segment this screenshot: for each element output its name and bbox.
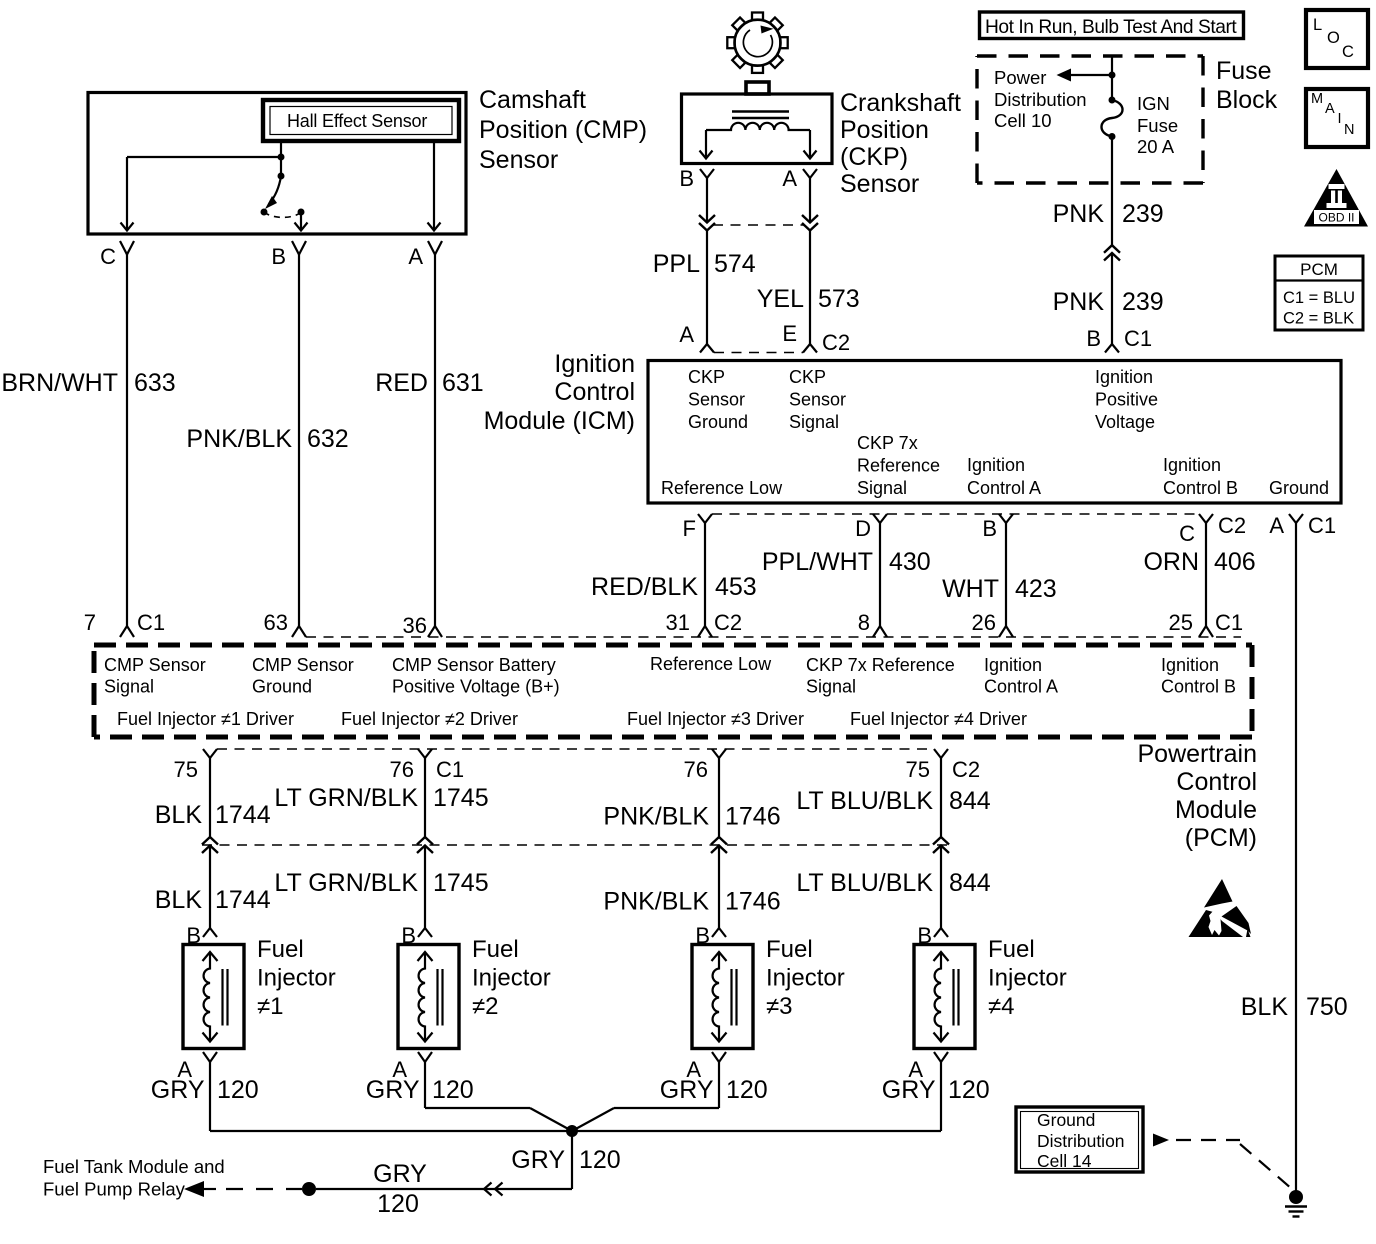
pin 8 [873, 626, 887, 637]
fuel injector 1 box [183, 945, 244, 1049]
svg-text:GRY: GRY [660, 1076, 714, 1104]
svg-text:ORN: ORN [1143, 548, 1199, 576]
wire from Hall sensor to junction [280, 141, 282, 176]
svg-text:O: O [1327, 29, 1340, 47]
svg-text:Injector: Injector [988, 965, 1067, 992]
svg-text:YEL: YEL [757, 285, 804, 313]
svg-text:PNK/BLK: PNK/BLK [186, 425, 292, 453]
injector 4 pin A [934, 1052, 948, 1062]
svg-text:633: 633 [134, 369, 176, 397]
svg-text:GRY: GRY [151, 1076, 205, 1104]
svg-text:LT GRN/BLK: LT GRN/BLK [274, 784, 418, 812]
svg-text:B: B [1086, 326, 1101, 351]
svg-text:PNK/BLK: PNK/BLK [603, 888, 709, 916]
svg-text:(PCM): (PCM) [1185, 824, 1257, 852]
junction dot to Power Distribution [1109, 72, 1116, 79]
svg-text:Sensor: Sensor [789, 390, 846, 410]
svg-text:423: 423 [1015, 575, 1057, 603]
svg-text:GRY: GRY [882, 1076, 936, 1104]
svg-text:Sensor: Sensor [688, 390, 745, 410]
svg-text:C1: C1 [137, 610, 165, 635]
svg-text:63: 63 [264, 610, 288, 635]
inline connector on PPL wire [699, 215, 715, 223]
wire BLK 1744 upper segment [209, 758, 211, 837]
hall switch arm with arrowhead [269, 176, 281, 204]
wire PPL/WHT 430 (ICM D to PCM 8) [879, 523, 881, 626]
svg-text:C: C [1342, 43, 1354, 61]
svg-text:Module: Module [1175, 796, 1257, 824]
connector dashed line between PPL and YEL wires [713, 224, 804, 226]
junction dot upper [278, 154, 285, 161]
dashed wire to fuel pump relay [226, 1188, 302, 1190]
injector 2 coil symbol [419, 953, 425, 1042]
svg-text:GRY: GRY [511, 1146, 565, 1174]
svg-text:Control B: Control B [1161, 677, 1236, 697]
svg-text:20 A: 20 A [1137, 136, 1175, 157]
svg-text:574: 574 [714, 250, 756, 278]
splice dot [302, 1182, 316, 1196]
svg-text:≠4: ≠4 [988, 993, 1015, 1020]
svg-text:Crankshaft: Crankshaft [840, 89, 961, 117]
inline connector on YEL wire [802, 215, 818, 223]
injector 1 pin B [203, 928, 217, 937]
injector 2 pin B [418, 928, 432, 937]
svg-text:Position (CMP): Position (CMP) [479, 116, 647, 144]
svg-text:C1: C1 [1215, 610, 1243, 635]
wire YEL 573 (CKP A to ICM E) [809, 178, 811, 223]
svg-text:BLK: BLK [155, 801, 203, 829]
svg-text:1745: 1745 [433, 869, 489, 897]
PCM bottom connector dashed line [217, 748, 934, 750]
svg-text:8: 8 [858, 610, 870, 635]
svg-text:C: C [1179, 521, 1195, 546]
svg-text:CMP Sensor: CMP Sensor [252, 655, 354, 675]
svg-text:Reference Low: Reference Low [650, 654, 772, 674]
svg-text:120: 120 [217, 1076, 259, 1104]
svg-text:Ground: Ground [688, 412, 748, 432]
svg-text:PPL/WHT: PPL/WHT [762, 548, 873, 576]
svg-text:406: 406 [1214, 548, 1256, 576]
injector 3 coil symbol [713, 953, 719, 1042]
svg-text:E: E [782, 321, 797, 346]
MAIN box [1306, 89, 1368, 147]
svg-text:Fuel Injector ≠1 Driver: Fuel Injector ≠1 Driver [117, 709, 294, 729]
wire PNK/BLK 1746 upper segment [718, 758, 720, 837]
svg-text:PNK: PNK [1053, 288, 1105, 316]
wire inside box to pin A [433, 141, 435, 229]
IGN fuse 20A element [1109, 97, 1116, 104]
svg-text:120: 120 [579, 1146, 621, 1174]
svg-text:Camshaft: Camshaft [479, 86, 586, 114]
injector 2 pin A [418, 1052, 432, 1062]
svg-text:Fuel: Fuel [988, 936, 1035, 963]
svg-text:RED: RED [375, 369, 428, 397]
svg-text:Positive: Positive [1095, 390, 1158, 410]
svg-text:CMP Sensor Battery: CMP Sensor Battery [392, 655, 556, 675]
wire ORN 406 (ICM C to PCM 25) [1205, 523, 1207, 626]
arrow to Power Distribution Cell 10 [1068, 74, 1112, 76]
ground symbol G103 [1289, 1190, 1303, 1204]
svg-text:239: 239 [1122, 288, 1164, 316]
svg-text:CKP: CKP [688, 367, 725, 387]
wire WHT 423 (ICM B to PCM 26) [1005, 523, 1007, 626]
svg-text:844: 844 [949, 787, 991, 815]
svg-text:120: 120 [377, 1190, 419, 1218]
Ground Distribution Cell 14 box [1016, 1107, 1143, 1172]
svg-text:BRN/WHT: BRN/WHT [1, 369, 118, 397]
svg-text:Hall Effect Sensor: Hall Effect Sensor [287, 111, 427, 131]
svg-text:1746: 1746 [725, 803, 781, 831]
LOC box [1306, 10, 1368, 68]
injector 4 pin B [934, 928, 948, 937]
wire BLK 750 (ICM A to ground) [1295, 523, 1297, 1191]
svg-text:BLK: BLK [155, 886, 203, 914]
svg-text:120: 120 [432, 1076, 474, 1104]
pin 31 C2 [698, 626, 712, 637]
svg-text:A: A [1325, 101, 1335, 117]
dashed link to ground point [1176, 1139, 1240, 1141]
svg-text:C2: C2 [822, 330, 850, 355]
pin A (ground) at ICM bottom [1289, 514, 1303, 523]
svg-text:239: 239 [1122, 200, 1164, 228]
wire PNK 239 from fuse to ICM [1111, 137, 1113, 246]
svg-text:75: 75 [906, 757, 930, 782]
svg-text:≠1: ≠1 [257, 993, 284, 1020]
svg-text:PNK: PNK [1053, 200, 1105, 228]
PCM top connector dashed line [306, 636, 1241, 638]
svg-text:I: I [1338, 111, 1342, 127]
svg-text:CKP 7x Reference: CKP 7x Reference [806, 655, 955, 675]
svg-text:C2: C2 [714, 610, 742, 635]
svg-text:L: L [1313, 16, 1322, 34]
svg-text:Injector: Injector [766, 965, 845, 992]
svg-text:C1 = BLU: C1 = BLU [1283, 289, 1355, 307]
wire RED 631 (pin A to PCM 36) [434, 254, 436, 626]
inline connector chevrons [484, 1183, 492, 1196]
svg-text:Control: Control [1176, 768, 1257, 796]
injector 3 pin B [712, 928, 726, 937]
pin 76 C2 (injector 3 driver) [712, 749, 726, 758]
Hall Effect Sensor box [263, 100, 459, 141]
svg-text:A: A [408, 244, 423, 269]
pin 75 C1 (injector 1 driver) [203, 749, 217, 758]
pin 26 [999, 626, 1013, 637]
svg-text:≠2: ≠2 [472, 993, 499, 1020]
injector 1 pin A [203, 1052, 217, 1062]
svg-text:Fuel: Fuel [766, 936, 813, 963]
pin A at ICM top [700, 344, 714, 353]
svg-text:632: 632 [307, 425, 349, 453]
svg-text:LT BLU/BLK: LT BLU/BLK [796, 869, 933, 897]
pin C at ICM bottom [1199, 514, 1213, 523]
OBD II symbol [1304, 169, 1368, 227]
svg-text:Fuse: Fuse [1216, 57, 1272, 85]
PCM dashed box outline [94, 643, 1252, 648]
svg-text:Fuel Tank Module and: Fuel Tank Module and [43, 1156, 225, 1177]
svg-text:Fuse: Fuse [1137, 115, 1178, 136]
svg-text:Distribution: Distribution [994, 89, 1087, 110]
svg-text:Control A: Control A [984, 677, 1058, 697]
fuel injector 3 box [692, 945, 753, 1049]
svg-text:GRY: GRY [366, 1076, 420, 1104]
svg-text:Signal: Signal [806, 677, 856, 697]
svg-text:LT BLU/BLK: LT BLU/BLK [796, 787, 933, 815]
pole piece lines [732, 110, 789, 112]
ground bus horizontal wire [210, 1130, 941, 1132]
PCM connector legend box [1275, 256, 1363, 330]
pin A of CMP connector [428, 241, 442, 255]
arrow into pin C [121, 223, 134, 231]
inline connector on BLK wire [202, 837, 218, 845]
pin 75 C2 (injector 4 driver) [934, 749, 948, 758]
svg-text:≠3: ≠3 [766, 993, 793, 1020]
svg-text:CKP: CKP [789, 367, 826, 387]
pin E at ICM top [803, 344, 817, 353]
svg-text:Fuel Pump Relay: Fuel Pump Relay [43, 1179, 186, 1200]
wire PPL 574 (CKP B to ICM A) [706, 178, 708, 223]
svg-text:1745: 1745 [433, 784, 489, 812]
svg-text:Signal: Signal [857, 478, 907, 498]
svg-text:Fuel Injector ≠2 Driver: Fuel Injector ≠2 Driver [341, 709, 518, 729]
svg-text:Ground: Ground [1037, 1110, 1095, 1130]
wire BRN/WHT 633 (pin C to PCM 7) [126, 254, 128, 626]
svg-text:Fuel Injector ≠4 Driver: Fuel Injector ≠4 Driver [850, 709, 1027, 729]
svg-text:Ignition: Ignition [1161, 655, 1219, 675]
svg-text:Signal: Signal [789, 412, 839, 432]
svg-text:Control A: Control A [967, 478, 1041, 498]
svg-text:C2 = BLK: C2 = BLK [1283, 310, 1354, 328]
CKP sensor box [682, 94, 833, 164]
svg-text:1746: 1746 [725, 888, 781, 916]
svg-text:Reference: Reference [857, 456, 940, 476]
svg-text:1744: 1744 [215, 886, 271, 914]
svg-text:PPL: PPL [653, 250, 700, 278]
ICM bottom connector dashed line [712, 513, 1199, 515]
wire LT BLU/BLK 844 upper segment [940, 758, 942, 837]
pin B of CKP connector [700, 169, 714, 178]
inline connector on LT BLU/BLK wire [933, 837, 949, 845]
svg-text:C2: C2 [952, 757, 980, 782]
sensor mounting tab [746, 82, 769, 94]
svg-text:CKP 7x: CKP 7x [857, 433, 918, 453]
dashed switch throw arc [264, 212, 300, 217]
pin A of CKP connector [803, 169, 817, 178]
svg-text:Ignition: Ignition [554, 350, 635, 378]
svg-text:Hot In Run, Bulb Test And Star: Hot In Run, Bulb Test And Start [985, 17, 1237, 38]
coil lead to pin B with arrow [705, 130, 707, 157]
pin 25 C1 [1199, 626, 1213, 637]
svg-text:453: 453 [715, 573, 757, 601]
svg-text:C1: C1 [436, 757, 464, 782]
inline connector on LT GRN/BLK wire [417, 837, 433, 845]
svg-text:B: B [271, 244, 286, 269]
dashed connector face C2 at ICM top [714, 352, 803, 354]
pin B at ICM bottom [999, 514, 1013, 523]
svg-text:F: F [683, 516, 696, 541]
svg-text:N: N [1344, 122, 1354, 138]
wire PNK/BLK 1746 lower segment [718, 846, 720, 929]
svg-text:B: B [679, 166, 694, 191]
svg-text:Sensor: Sensor [840, 170, 919, 198]
svg-text:76: 76 [390, 757, 414, 782]
svg-text:(CKP): (CKP) [840, 143, 908, 171]
pin B C1 at ICM top [1105, 344, 1119, 353]
svg-text:C1: C1 [1308, 513, 1336, 538]
svg-text:Ignition: Ignition [967, 455, 1025, 475]
svg-text:Position: Position [840, 116, 929, 144]
inline connector on PNK/BLK wire [711, 837, 727, 845]
wire to fuel pump relay [316, 1188, 572, 1190]
svg-text:IGN: IGN [1137, 93, 1170, 114]
injector 1 coil symbol [204, 953, 210, 1042]
svg-text:120: 120 [726, 1076, 768, 1104]
svg-text:Injector: Injector [472, 965, 551, 992]
svg-text:26: 26 [972, 610, 996, 635]
svg-text:Cell 14: Cell 14 [1037, 1151, 1092, 1171]
wire GRY 120 from junction [571, 1131, 573, 1189]
wire LT GRN/BLK 1745 upper segment [424, 758, 426, 837]
arrow to fuel tank module [184, 1181, 204, 1197]
harness connector dashed line [202, 844, 948, 846]
svg-text:1744: 1744 [215, 801, 271, 829]
pin D at ICM bottom [873, 514, 887, 523]
svg-text:PNK/BLK: PNK/BLK [603, 803, 709, 831]
svg-text:631: 631 [442, 369, 484, 397]
svg-text:Fuel: Fuel [472, 936, 519, 963]
svg-text:Ignition: Ignition [984, 655, 1042, 675]
svg-text:WHT: WHT [942, 575, 999, 603]
wire LT BLU/BLK 844 lower segment [940, 846, 942, 929]
svg-text:Injector: Injector [257, 965, 336, 992]
ESD sensitivity symbol [1204, 879, 1233, 908]
pin 76 C1 (injector 2 driver) [418, 749, 432, 758]
pin C of CMP connector [120, 241, 134, 255]
svg-text:120: 120 [948, 1076, 990, 1104]
junction dot lower (switch pivot) [278, 173, 285, 180]
feed wire from top [1111, 56, 1113, 100]
switch contact dot right [298, 209, 305, 216]
svg-text:Distribution: Distribution [1037, 1131, 1125, 1151]
injector 4 coil symbol [935, 953, 941, 1042]
svg-text:GRY: GRY [373, 1160, 427, 1188]
svg-text:573: 573 [818, 285, 860, 313]
wire to pin C [127, 156, 281, 158]
svg-text:75: 75 [174, 757, 198, 782]
wire RED/BLK 453 (ICM F to PCM 31) [704, 523, 706, 626]
coil lead to pin A with arrow [809, 130, 811, 157]
svg-text:CMP Sensor: CMP Sensor [104, 655, 206, 675]
svg-text:750: 750 [1306, 993, 1348, 1021]
svg-text:Fuel: Fuel [257, 936, 304, 963]
svg-text:Module (ICM): Module (ICM) [484, 407, 635, 435]
svg-text:Cell 10: Cell 10 [994, 110, 1052, 131]
reluctor wheel (gear) icon [727, 13, 787, 73]
svg-text:Positive Voltage (B+): Positive Voltage (B+) [392, 677, 560, 697]
svg-text:430: 430 [889, 548, 931, 576]
svg-text:A: A [679, 322, 694, 347]
pin B of CMP connector [292, 241, 306, 255]
svg-text:Reference Low: Reference Low [661, 478, 783, 498]
svg-text:BLK: BLK [1241, 993, 1289, 1021]
svg-text:LT GRN/BLK: LT GRN/BLK [274, 869, 418, 897]
svg-text:7: 7 [84, 610, 96, 635]
pin 36 [428, 626, 442, 637]
svg-text:B: B [982, 516, 997, 541]
svg-text:Sensor: Sensor [479, 146, 558, 174]
svg-text:A: A [1269, 513, 1284, 538]
svg-text:M: M [1311, 91, 1323, 107]
svg-text:25: 25 [1169, 610, 1193, 635]
svg-text:36: 36 [403, 613, 427, 638]
injector 3 pin A [712, 1052, 726, 1062]
svg-text:Powertrain: Powertrain [1138, 740, 1258, 768]
fuel injector 4 box [914, 945, 975, 1049]
pin 7 C1 [120, 626, 134, 637]
fuse block dashed outline [977, 54, 1203, 57]
svg-text:RED/BLK: RED/BLK [591, 573, 698, 601]
wire LT GRN/BLK 1745 lower segment [424, 846, 426, 929]
Hot In Run, Bulb Test And Start box [980, 12, 1244, 39]
svg-text:Fuel Injector ≠3 Driver: Fuel Injector ≠3 Driver [627, 709, 804, 729]
pin 63 [292, 626, 306, 637]
svg-text:PCM: PCM [1300, 260, 1338, 279]
svg-text:C1: C1 [1124, 326, 1152, 351]
arrow from ground distribution [1153, 1134, 1169, 1147]
svg-text:Voltage: Voltage [1095, 412, 1155, 432]
svg-text:C: C [100, 244, 116, 269]
CMP sensor box [88, 93, 466, 235]
pin F at ICM bottom [698, 514, 712, 523]
svg-text:A: A [782, 166, 797, 191]
svg-text:Ground: Ground [1269, 478, 1329, 498]
svg-text:844: 844 [949, 869, 991, 897]
bus junction [566, 1125, 578, 1137]
svg-text:OBD II: OBD II [1318, 211, 1354, 225]
svg-text:76: 76 [684, 757, 708, 782]
wire PNK/BLK 632 (pin B to PCM 63) [298, 254, 300, 626]
svg-text:Ignition: Ignition [1095, 367, 1153, 387]
wire BLK 1744 lower segment [209, 846, 211, 929]
short wire to pin B with arrow [300, 212, 302, 229]
ICM box [648, 361, 1341, 504]
switch contact dot left [261, 209, 268, 216]
inline connector on PNK wire [1104, 245, 1120, 253]
svg-text:Power: Power [994, 67, 1046, 88]
injector ground bus wires [209, 1062, 211, 1131]
svg-text:Ignition: Ignition [1163, 455, 1221, 475]
svg-text:D: D [855, 516, 871, 541]
fuel injector 2 box [398, 945, 459, 1049]
svg-text:Control: Control [554, 378, 635, 406]
CKP pickup coil [706, 123, 810, 130]
svg-text:31: 31 [666, 610, 690, 635]
svg-text:Signal: Signal [104, 677, 154, 697]
svg-text:Control B: Control B [1163, 478, 1238, 498]
svg-text:Ground: Ground [252, 677, 312, 697]
svg-text:C2: C2 [1218, 513, 1246, 538]
svg-text:Block: Block [1216, 86, 1278, 114]
